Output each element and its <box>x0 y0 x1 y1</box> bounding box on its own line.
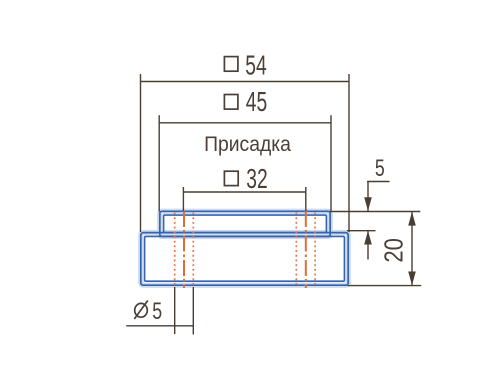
svg-text:20: 20 <box>380 238 409 263</box>
dimension 20: dimension line <box>411 212 413 286</box>
hidden line: right hole left edge <box>295 213 297 286</box>
dimension phi5: diameter symbol <box>134 301 148 320</box>
dimension 20: up arrowhead <box>408 212 416 226</box>
part body: lower flange outer contour <box>141 233 348 286</box>
dimension 5: shoulder line under text <box>367 181 390 183</box>
dimension 54: square symbol <box>224 57 238 72</box>
part body: halo of upper boss contour <box>160 211 330 236</box>
dimension 54: dimension line <box>141 81 350 83</box>
dimension 54: right extension line <box>348 74 350 232</box>
dimension phi5: dimension line <box>126 325 193 327</box>
dimension 45: dimension line <box>159 122 331 124</box>
part body: upper boss outer contour <box>160 211 330 236</box>
dimension 20: down arrowhead <box>408 272 416 286</box>
part body: upper boss inner contour <box>164 215 327 233</box>
svg-text:Присадка: Присадка <box>204 132 291 156</box>
extension line: top of boss (right side) <box>330 211 421 213</box>
svg-text:5: 5 <box>375 156 385 182</box>
svg-text:45: 45 <box>246 88 267 118</box>
extension line: bottom of flange (right side) <box>348 285 422 287</box>
dimension 45: right extension line <box>330 115 332 211</box>
part body: halo of lower flange contour <box>141 233 348 286</box>
dimension 54: left extension line <box>140 74 142 232</box>
extension line: top of flange (right side) <box>347 230 376 232</box>
hidden line: left hole right edge <box>192 213 194 286</box>
dimension 5: down arrowhead <box>364 197 372 211</box>
part body: lower flange inner contour <box>145 236 345 281</box>
centerline: left hole axis <box>183 211 185 288</box>
svg-text:54: 54 <box>245 51 266 81</box>
dimension phi5: right extension line <box>192 287 194 335</box>
dimension 5: upper leader segment <box>367 182 369 212</box>
dimension 32: dimension line <box>183 191 305 193</box>
dimension 5: lower leader segment <box>367 231 369 260</box>
dimension 45: square symbol <box>224 95 238 110</box>
svg-text:5: 5 <box>152 299 162 325</box>
dimension 32: left extension line <box>182 187 184 211</box>
hidden line: left hole left edge <box>174 213 176 286</box>
centerline: right hole axis <box>305 211 307 288</box>
svg-text:32: 32 <box>246 165 267 195</box>
dimension 5: up arrowhead <box>364 231 372 245</box>
dimension phi5: left extension line <box>174 287 176 334</box>
dimension 32: right extension line <box>305 187 307 211</box>
dimension 45: left extension line <box>158 115 160 211</box>
dimension 32: square symbol <box>224 171 238 185</box>
hidden line: right hole right edge <box>314 213 316 286</box>
